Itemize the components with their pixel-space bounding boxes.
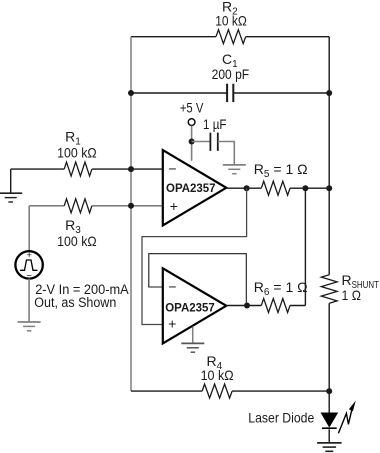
wire: U1a output to U2a + input (outer loop) <box>142 188 247 324</box>
wire: U2a output line <box>226 305 305 307</box>
wire: R6 right riser up to R5 <box>304 188 306 305</box>
wire: source bottom to ground <box>28 279 30 322</box>
svg-text:+5 V: +5 V <box>180 99 204 115</box>
svg-text:−: − <box>168 279 176 295</box>
wire: top horizontal (R2 feedback line) <box>131 36 329 38</box>
svg-text:100 kΩ: 100 kΩ <box>57 144 97 160</box>
wire: U1a output line <box>226 187 329 189</box>
resistor R4 <box>202 384 232 398</box>
svg-text:10 kΩ: 10 kΩ <box>201 367 234 383</box>
resistor R2 <box>216 30 246 44</box>
ground (laser diode) <box>317 442 342 444</box>
wire: bypass cap right lead to ground <box>218 142 235 165</box>
wire: C1 horizontal <box>131 92 329 94</box>
ground (U2a supply) <box>181 342 204 344</box>
svg-text:OPA2357: OPA2357 <box>165 302 215 314</box>
svg-text:Laser Diode: Laser Diode <box>248 410 314 426</box>
cathode bar of D1 <box>322 427 337 429</box>
wire: R3 input line <box>29 205 163 207</box>
node: junction dot R3 / non-inverting input <box>128 203 134 209</box>
resistor R1 <box>64 162 92 176</box>
source V1 pulse generator <box>15 251 42 278</box>
resistor R_SHUNT <box>321 275 337 304</box>
svg-text:OPA2357: OPA2357 <box>166 183 216 195</box>
svg-text:R6 = 1 Ω: R6 = 1 Ω <box>254 279 308 298</box>
wire: U2a unity feedback (inner loop) <box>149 254 247 306</box>
svg-text:+: + <box>170 198 178 214</box>
laser diode D1 <box>321 413 337 427</box>
ground (bypass cap) <box>223 164 246 166</box>
svg-text:1 Ω: 1 Ω <box>342 287 362 303</box>
wire: R4 bottom line <box>131 390 329 392</box>
pulse waveform glyph <box>20 260 38 270</box>
wire: +5V supply stem <box>191 126 193 161</box>
svg-text:R5 = 1 Ω: R5 = 1 Ω <box>254 161 308 180</box>
svg-text:−: − <box>168 160 176 176</box>
wire: bypass cap left lead <box>192 141 211 143</box>
resistor R3 <box>64 199 92 213</box>
wire: R1 input line <box>11 168 163 170</box>
node: junction dot C1-right <box>326 90 332 96</box>
wire: left vertical bus <box>130 37 132 391</box>
svg-text:+: + <box>168 316 176 332</box>
svg-text:100 kΩ: 100 kΩ <box>57 233 97 249</box>
node: junction dot U1a output <box>244 185 250 191</box>
node: junction dot R5/R6 tie <box>302 185 308 191</box>
power +5V terminal <box>188 119 195 126</box>
op-amp U1a OPA2357 <box>163 150 227 225</box>
svg-text:Out, as Shown: Out, as Shown <box>34 295 116 310</box>
wire: R3 left bend down to source <box>28 206 30 250</box>
capacitor C1 <box>227 84 233 102</box>
resistor R6 <box>261 299 290 313</box>
light emission arrow of D1 <box>338 406 352 434</box>
svg-text:10 kΩ: 10 kΩ <box>215 12 247 28</box>
ground (R1 input) <box>0 192 22 194</box>
node: junction dot R4 / laser diode <box>326 388 332 394</box>
node: junction dot U2a output <box>244 303 250 309</box>
op-amp U2a OPA2357 <box>163 268 227 343</box>
node: junction dot C1-left <box>128 90 134 96</box>
resistor R5 <box>261 181 290 195</box>
wire: R1 left drop to ground <box>10 169 12 193</box>
capacitor C_bypass 1uF <box>210 133 217 151</box>
node: junction dot supply/bypass <box>189 139 195 145</box>
wire: U2a V- stem to ground <box>192 326 194 343</box>
svg-text:200 pF: 200 pF <box>212 66 250 82</box>
wire: right vertical bus <box>328 37 330 443</box>
svg-text:1 µF: 1 µF <box>203 116 227 132</box>
ground (pulse source) <box>18 321 41 323</box>
node: junction dot R5 to shunt bus <box>326 185 332 191</box>
node: junction dot R1 / inverting input <box>128 166 134 172</box>
